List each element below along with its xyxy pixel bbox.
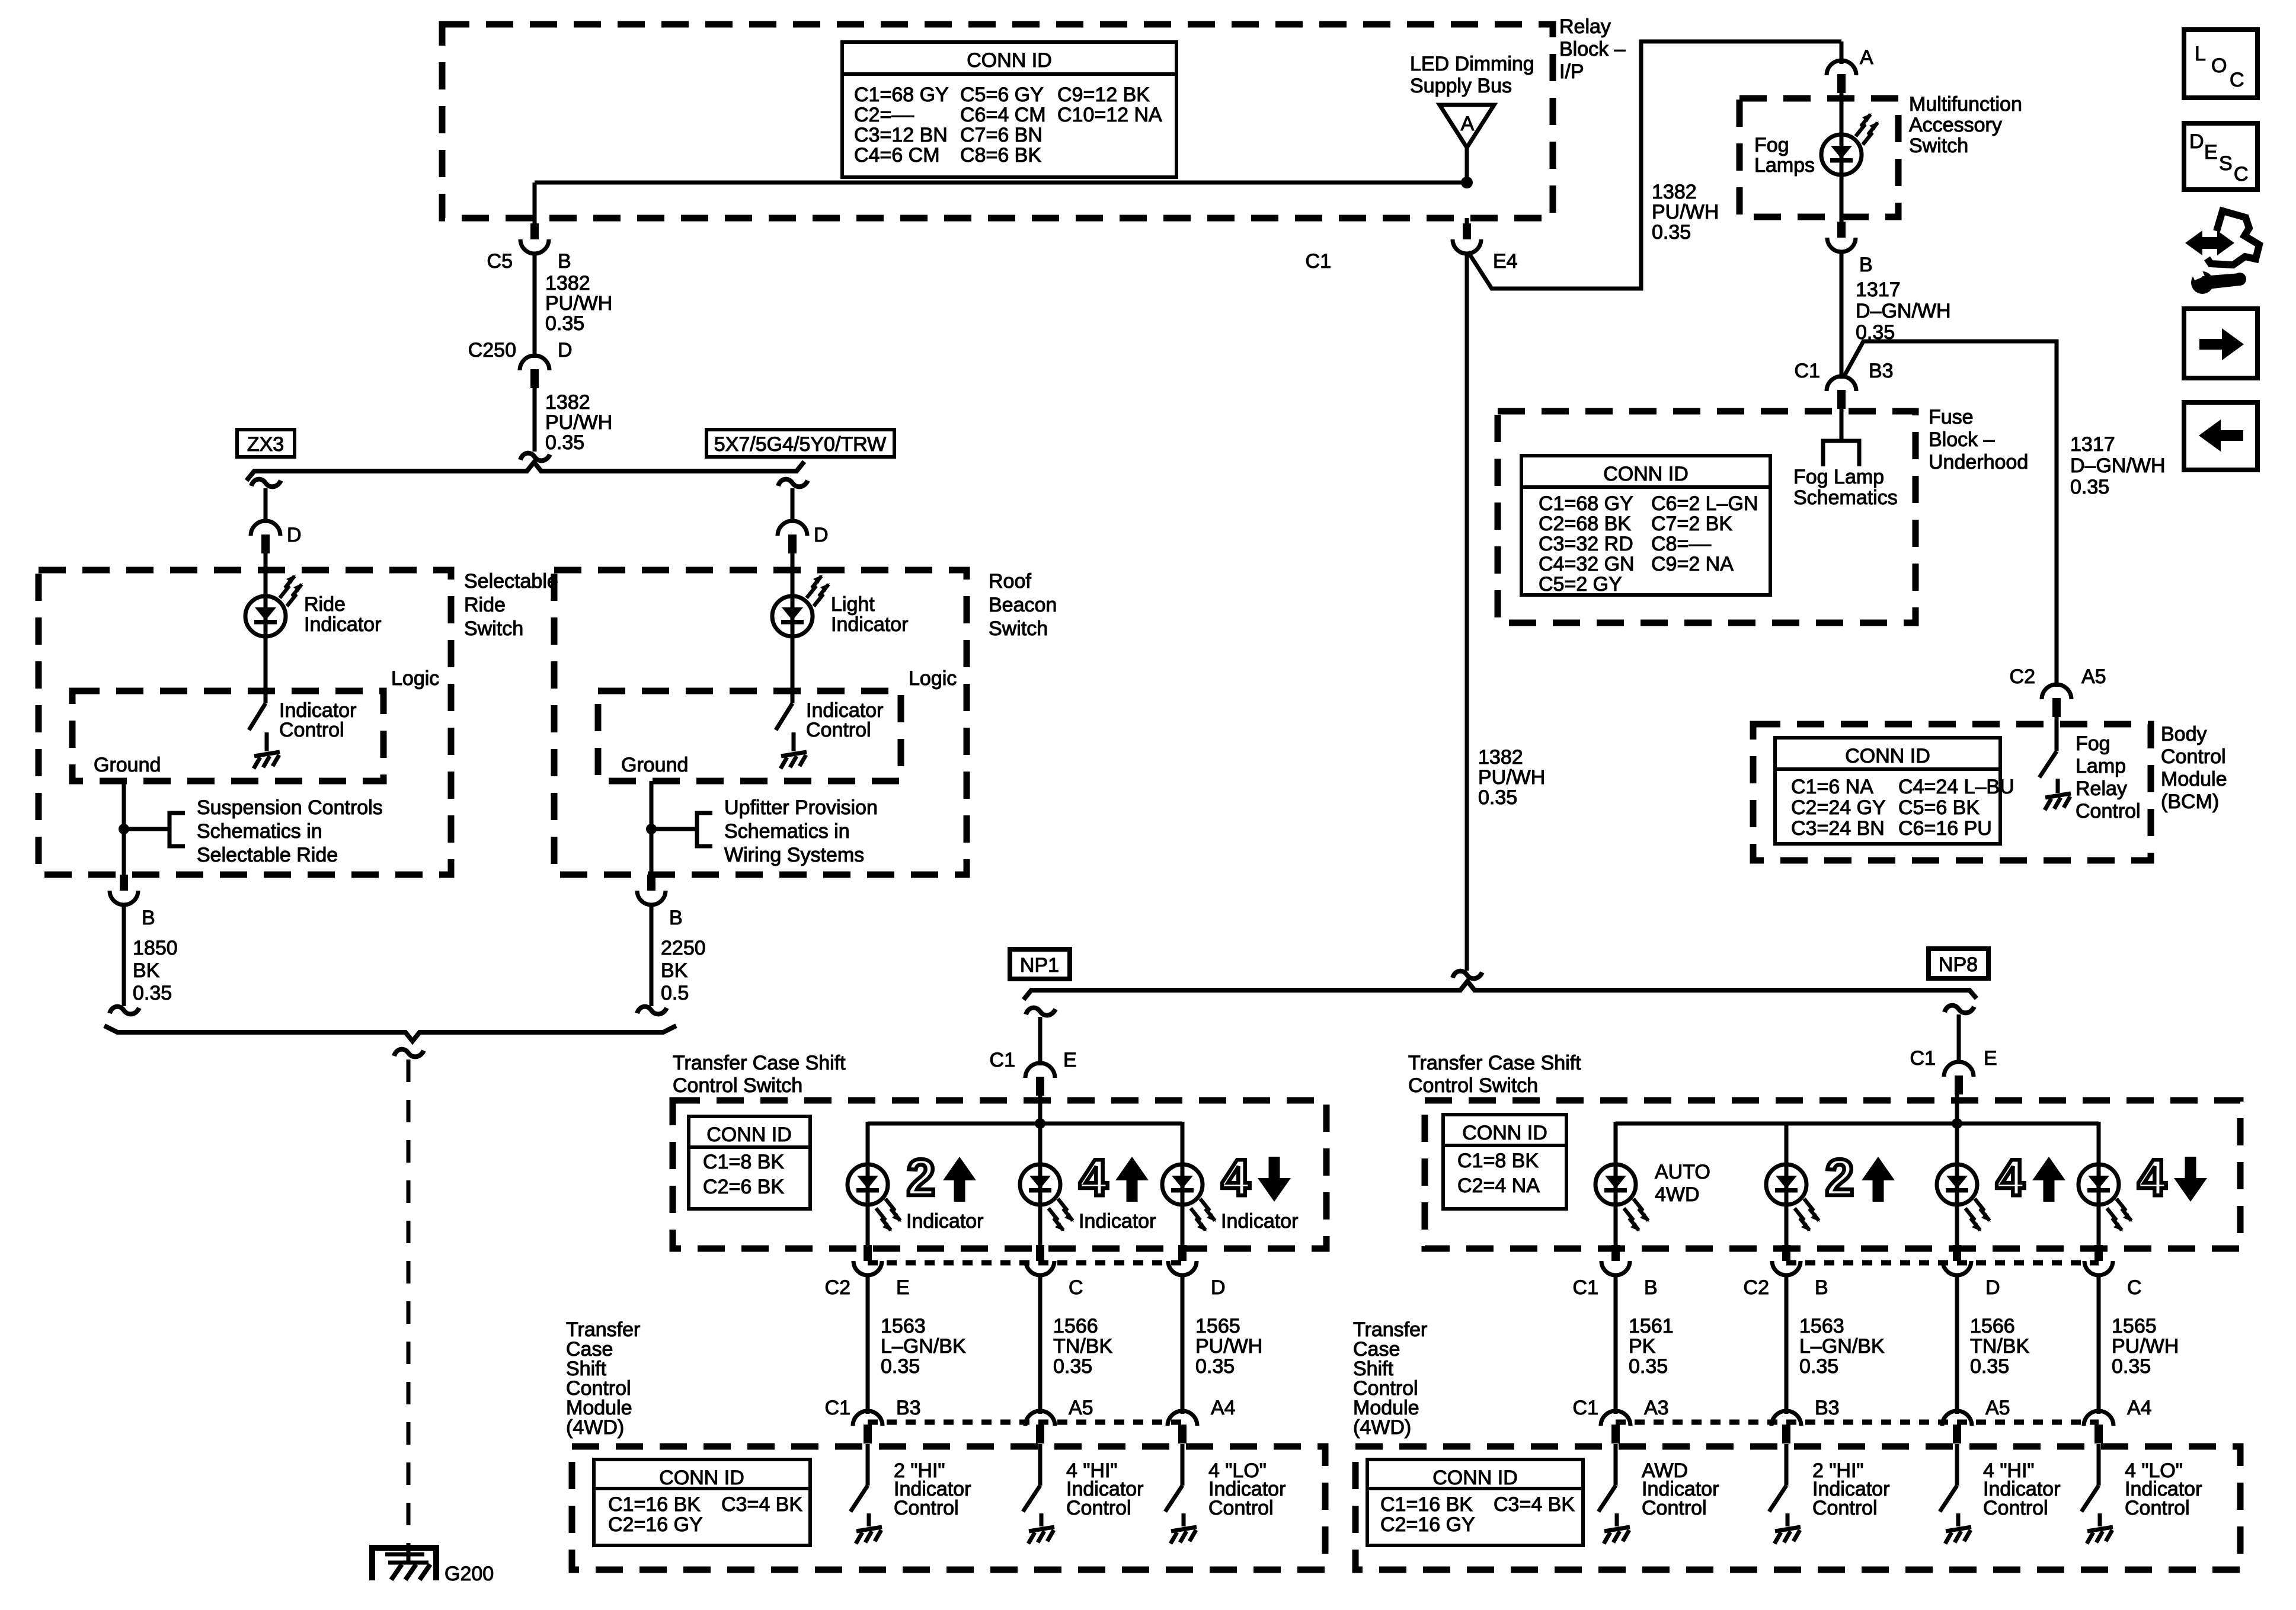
svg-text:0.35: 0.35 bbox=[1478, 786, 1517, 809]
svg-text:Control Switch: Control Switch bbox=[673, 1074, 802, 1097]
svg-text:C3=32 RD: C3=32 RD bbox=[1539, 533, 1633, 555]
svg-text:C2=––: C2=–– bbox=[854, 104, 914, 126]
svg-text:Relay: Relay bbox=[2076, 777, 2127, 800]
wire to module left2 bbox=[1038, 1275, 1043, 1414]
svg-text:PU/WH: PU/WH bbox=[2112, 1335, 2179, 1358]
svg-text:C9=2 NA: C9=2 NA bbox=[1651, 553, 1734, 575]
svg-text:C8=––: C8=–– bbox=[1651, 533, 1711, 555]
svg-text:NP1: NP1 bbox=[1020, 954, 1059, 977]
LED indicator left2 bbox=[1020, 1164, 1060, 1205]
LED column wire right3 bbox=[1955, 1185, 1959, 1245]
svg-text:D: D bbox=[1211, 1276, 1226, 1299]
svg-text:2: 2 bbox=[1825, 1149, 1854, 1206]
svg-text:C: C bbox=[2127, 1276, 2142, 1299]
wire LED to switch (selectable ride switch) bbox=[264, 636, 268, 703]
svg-text:C2=4 NA: C2=4 NA bbox=[1457, 1174, 1540, 1197]
connector top row left3 bbox=[1168, 1245, 1197, 1275]
branch bus curl bbox=[520, 453, 550, 461]
5X7/5G4/5Y0/TRW box bbox=[706, 430, 894, 457]
E4 diagonal to fuse block feed bbox=[1468, 41, 1841, 289]
connector bottom row right2 bbox=[1771, 1411, 1801, 1443]
connector top row right4 bbox=[2084, 1245, 2113, 1275]
wire horizontal inside relay block bbox=[535, 181, 1467, 185]
svg-text:0.5: 0.5 bbox=[661, 982, 689, 1004]
svg-text:C1=68 GY: C1=68 GY bbox=[1539, 492, 1633, 515]
svg-text:0.35: 0.35 bbox=[1799, 1355, 1838, 1378]
svg-text:CONN ID: CONN ID bbox=[1462, 1122, 1547, 1144]
svg-text:C: C bbox=[2234, 163, 2249, 185]
svg-text:PU/WH: PU/WH bbox=[545, 411, 612, 434]
left arrow icon box bbox=[2184, 402, 2257, 470]
svg-text:0.35: 0.35 bbox=[545, 312, 584, 335]
svg-text:C6=4 CM: C6=4 CM bbox=[960, 104, 1046, 126]
svg-text:A3: A3 bbox=[1644, 1397, 1669, 1419]
svg-text:D: D bbox=[1985, 1276, 2000, 1299]
svg-text:S: S bbox=[2219, 152, 2233, 175]
svg-text:C1: C1 bbox=[1573, 1276, 1598, 1299]
connector top row right3 bbox=[1943, 1245, 1971, 1275]
svg-text:C2=16 GY: C2=16 GY bbox=[1380, 1513, 1475, 1536]
svg-text:CONN ID: CONN ID bbox=[1603, 463, 1689, 485]
svg-text:D–GN/WH: D–GN/WH bbox=[1856, 300, 1951, 322]
svg-text:C4=24 L–BU: C4=24 L–BU bbox=[1898, 776, 2014, 798]
svg-text:BK: BK bbox=[133, 959, 160, 982]
svg-text:C1: C1 bbox=[1573, 1397, 1598, 1419]
connector bottom row right4 bbox=[2084, 1411, 2113, 1443]
NP8 drop bbox=[1945, 1006, 1974, 1013]
fuse block dashed box bbox=[1498, 411, 1916, 623]
svg-text:4WD: 4WD bbox=[1655, 1183, 1700, 1206]
svg-text:CONN ID: CONN ID bbox=[1432, 1467, 1518, 1489]
svg-text:L–GN/BK: L–GN/BK bbox=[881, 1335, 966, 1358]
svg-text:B: B bbox=[558, 250, 571, 273]
svg-text:(BCM): (BCM) bbox=[2161, 790, 2219, 813]
svg-text:4: 4 bbox=[1221, 1149, 1250, 1206]
fog lamp relay control switch bbox=[2055, 702, 2059, 751]
svg-text:Indicator: Indicator bbox=[831, 613, 908, 636]
svg-text:C3=12 BN: C3=12 BN bbox=[854, 124, 948, 146]
svg-text:1317: 1317 bbox=[2070, 433, 2115, 456]
svg-text:A: A bbox=[1860, 46, 1873, 69]
connector D (roof beacon switch) bbox=[778, 521, 807, 553]
svg-text:Switch: Switch bbox=[989, 617, 1048, 640]
roof beacon switch dashed box bbox=[554, 570, 967, 875]
svg-text:Underhood: Underhood bbox=[1929, 451, 2028, 473]
svg-text:C2: C2 bbox=[1744, 1276, 1769, 1299]
svg-text:C5=2 GY: C5=2 GY bbox=[1539, 573, 1622, 596]
svg-text:Roof: Roof bbox=[989, 570, 1031, 593]
internal bus left bbox=[868, 1122, 1182, 1126]
B3 diagonal feed to BCM bbox=[1844, 341, 2057, 687]
module switch left2 bbox=[1038, 1444, 1043, 1486]
svg-text:E: E bbox=[1063, 1049, 1077, 1071]
svg-text:Ride: Ride bbox=[464, 594, 506, 616]
svg-text:B: B bbox=[1815, 1276, 1828, 1299]
svg-text:Control: Control bbox=[1642, 1497, 1707, 1519]
svg-text:C5=6 BK: C5=6 BK bbox=[1898, 796, 1980, 819]
wire into fog lamps LED bbox=[1840, 93, 1844, 135]
wire B to ground bus (selectable ride switch) bbox=[122, 904, 126, 1006]
svg-text:Indicator: Indicator bbox=[906, 1210, 983, 1233]
svg-text:1317: 1317 bbox=[1856, 279, 1901, 301]
svg-text:C1: C1 bbox=[825, 1397, 850, 1419]
connector D (selectable ride switch) bbox=[251, 521, 280, 553]
svg-text:C: C bbox=[2230, 69, 2244, 91]
svg-text:4: 4 bbox=[2138, 1149, 2166, 1206]
svg-text:C6=2 L–GN: C6=2 L–GN bbox=[1651, 492, 1758, 515]
svg-text:ZX3: ZX3 bbox=[247, 433, 284, 456]
feed wire into box left bbox=[1038, 1091, 1043, 1185]
svg-text:1850: 1850 bbox=[133, 937, 178, 959]
svg-text:B3: B3 bbox=[1815, 1397, 1840, 1419]
connector B (selectable ride switch) bbox=[110, 875, 138, 905]
fog lamps LED bbox=[1821, 135, 1862, 175]
connector bottom row right3 bbox=[1942, 1411, 1972, 1443]
svg-text:0.35: 0.35 bbox=[1629, 1355, 1668, 1378]
svg-text:C1=16 BK: C1=16 BK bbox=[1380, 1493, 1473, 1516]
svg-text:Schematics in: Schematics in bbox=[197, 820, 322, 843]
svg-text:BK: BK bbox=[661, 959, 688, 982]
CONN ID table module left bbox=[594, 1459, 810, 1545]
svg-text:1565: 1565 bbox=[2112, 1315, 2157, 1337]
svg-text:Control: Control bbox=[2125, 1497, 2190, 1519]
svg-text:Control: Control bbox=[1983, 1497, 2048, 1519]
LED indicator (selectable ride switch) bbox=[245, 596, 286, 636]
selectable ride switch drop curl bbox=[251, 479, 281, 487]
wire to module left3 bbox=[1181, 1275, 1185, 1414]
CONN ID table switch left bbox=[689, 1116, 810, 1209]
service icon zigzag outline bbox=[2207, 211, 2259, 265]
wire to module right4 bbox=[2097, 1275, 2101, 1414]
LED column wire left2 bbox=[1038, 1185, 1043, 1245]
transfer case shift control module dashed box right bbox=[1355, 1446, 2240, 1570]
dashed wire to G200 bbox=[407, 1060, 411, 1561]
svg-text:C1=6 NA: C1=6 NA bbox=[1791, 776, 1873, 798]
LED column wire right4 bbox=[2097, 1122, 2101, 1185]
LED indicator left3 bbox=[1162, 1164, 1203, 1205]
wire to module right3 bbox=[1955, 1275, 1959, 1414]
CONN ID table module right bbox=[1367, 1459, 1583, 1545]
svg-text:0.35: 0.35 bbox=[133, 982, 172, 1004]
svg-text:Upfitter Provision: Upfitter Provision bbox=[724, 796, 878, 819]
svg-text:C: C bbox=[1069, 1276, 1083, 1299]
LED column wire right1 bbox=[1614, 1122, 1618, 1185]
svg-text:E: E bbox=[2204, 141, 2218, 164]
selectable ride switch drop wire bbox=[264, 488, 268, 523]
feed wire into box right bbox=[1955, 1091, 1959, 1185]
roof beacon switch drop wire bbox=[791, 488, 795, 523]
svg-text:C8=6 BK: C8=6 BK bbox=[960, 144, 1041, 167]
connector top row right2 bbox=[1772, 1245, 1801, 1275]
connector C1/E4 bbox=[1465, 218, 1469, 223]
svg-text:C7=2 BK: C7=2 BK bbox=[1651, 513, 1732, 535]
svg-text:Accessory: Accessory bbox=[1909, 114, 2002, 136]
svg-text:C9=12 BK: C9=12 BK bbox=[1057, 84, 1150, 106]
module switch right1 bbox=[1614, 1444, 1618, 1486]
svg-text:C1: C1 bbox=[1910, 1047, 1936, 1070]
connector C2/A5 bbox=[2042, 684, 2071, 717]
svg-text:1566: 1566 bbox=[1970, 1315, 2015, 1337]
dotted connector line bottom left bbox=[868, 1420, 1182, 1425]
svg-text:D–GN/WH: D–GN/WH bbox=[2070, 454, 2166, 477]
LED column wire left3 bbox=[1181, 1122, 1185, 1185]
svg-text:C2=68 BK: C2=68 BK bbox=[1539, 513, 1631, 535]
connector bottom row left3 bbox=[1168, 1411, 1197, 1443]
svg-text:B: B bbox=[142, 907, 155, 929]
ground wire (roof beacon switch) bbox=[650, 781, 654, 877]
internal bus right bbox=[1616, 1122, 2099, 1126]
svg-text:E4: E4 bbox=[1493, 250, 1518, 273]
svg-text:Control: Control bbox=[2161, 745, 2226, 768]
DESC icon box bbox=[2184, 123, 2257, 190]
svg-text:Fog: Fog bbox=[2076, 732, 2110, 755]
svg-text:0.35: 0.35 bbox=[545, 431, 584, 454]
LED column wire left1 bbox=[866, 1122, 870, 1185]
module switch right3 bbox=[1955, 1444, 1959, 1486]
wire to module left1 bbox=[866, 1275, 870, 1414]
svg-text:1382: 1382 bbox=[545, 272, 590, 295]
svg-text:C1: C1 bbox=[990, 1049, 1015, 1071]
connector bottom row left2 bbox=[1025, 1411, 1055, 1443]
svg-text:E: E bbox=[896, 1276, 910, 1299]
svg-text:1382: 1382 bbox=[1478, 746, 1523, 769]
svg-text:C3=4 BK: C3=4 BK bbox=[1494, 1493, 1575, 1516]
svg-text:B3: B3 bbox=[1869, 360, 1894, 382]
bracket symbol (selectable ride switch) bbox=[170, 813, 185, 846]
connector A bbox=[1827, 60, 1856, 93]
svg-text:C2=16 GY: C2=16 GY bbox=[608, 1513, 703, 1536]
connector bottom row left1 bbox=[853, 1411, 882, 1443]
connector C1/E NP1 bbox=[1025, 1063, 1055, 1096]
svg-text:0.35: 0.35 bbox=[1053, 1355, 1092, 1378]
selectable ride switch dashed box bbox=[39, 570, 451, 875]
svg-text:B: B bbox=[1859, 254, 1873, 276]
svg-text:CONN ID: CONN ID bbox=[1845, 745, 1930, 767]
center 1382 wire down bbox=[1465, 253, 1469, 971]
dotted connector line bottom right bbox=[1616, 1420, 2099, 1425]
svg-text:Switch: Switch bbox=[464, 617, 523, 640]
svg-text:Logic: Logic bbox=[391, 667, 439, 690]
switch ground (selectable ride switch) bbox=[254, 752, 280, 769]
svg-text:Body: Body bbox=[2161, 723, 2207, 745]
svg-text:C3=4 BK: C3=4 BK bbox=[721, 1493, 802, 1516]
fog lamp schematics fork bbox=[1823, 441, 1859, 466]
svg-text:Indicator: Indicator bbox=[304, 613, 381, 636]
svg-text:0.35: 0.35 bbox=[1970, 1355, 2009, 1378]
svg-text:TN/BK: TN/BK bbox=[1053, 1335, 1112, 1358]
svg-text:Fog: Fog bbox=[1754, 134, 1789, 156]
LED indicator right3 bbox=[1937, 1164, 1977, 1205]
svg-text:E: E bbox=[1984, 1047, 1997, 1070]
curl at NP bus bbox=[1453, 971, 1482, 979]
ground wire (selectable ride switch) bbox=[122, 781, 126, 877]
svg-text:Logic: Logic bbox=[909, 667, 957, 690]
connector top row left1 bbox=[853, 1245, 882, 1275]
svg-text:Control: Control bbox=[279, 719, 344, 741]
svg-text:Selectable Ride: Selectable Ride bbox=[197, 844, 338, 866]
connector C5/B bbox=[520, 223, 549, 254]
svg-text:Block –: Block – bbox=[1559, 38, 1626, 60]
wire C1/B3 into fork bbox=[1840, 409, 1844, 441]
transfer case shift control module dashed box left bbox=[572, 1446, 1325, 1570]
svg-text:Ground: Ground bbox=[621, 754, 688, 776]
svg-text:0.35: 0.35 bbox=[2112, 1355, 2151, 1378]
logic dashed box (roof beacon switch) bbox=[598, 691, 901, 781]
svg-text:Control: Control bbox=[894, 1497, 959, 1519]
dotted connector line top left bbox=[868, 1260, 1182, 1266]
NP1 drop bbox=[1026, 1008, 1056, 1016]
LED column wire right2 bbox=[1785, 1122, 1789, 1185]
svg-text:Transfer Case Shift: Transfer Case Shift bbox=[1408, 1052, 1581, 1074]
switch ground (roof beacon switch) bbox=[781, 752, 807, 769]
svg-text:A: A bbox=[1461, 113, 1475, 135]
svg-text:1565: 1565 bbox=[1195, 1315, 1240, 1337]
LED dimming supply bus triangle A bbox=[1440, 105, 1494, 148]
indicator control switch (roof beacon switch) bbox=[776, 703, 792, 730]
CONN ID table fuse block bbox=[1521, 456, 1770, 595]
svg-text:PK: PK bbox=[1629, 1335, 1656, 1358]
svg-text:C6=16 PU: C6=16 PU bbox=[1898, 817, 1992, 840]
svg-text:C2: C2 bbox=[2010, 665, 2035, 688]
svg-text:D: D bbox=[2189, 130, 2204, 153]
svg-text:1561: 1561 bbox=[1629, 1315, 1674, 1337]
branch bus with chevron bbox=[247, 462, 804, 481]
svg-text:D: D bbox=[287, 524, 302, 546]
G200 ground symbol bbox=[372, 1548, 436, 1580]
svg-text:Ride: Ride bbox=[304, 593, 346, 616]
svg-text:1563: 1563 bbox=[1799, 1315, 1844, 1337]
module switch right4 bbox=[2097, 1444, 2101, 1486]
ZX3 box bbox=[237, 430, 295, 457]
wire C250 to branch bus bbox=[533, 388, 537, 452]
svg-text:1382: 1382 bbox=[1652, 181, 1697, 203]
svg-text:A5: A5 bbox=[1069, 1397, 1093, 1419]
svg-text:4: 4 bbox=[1996, 1149, 2025, 1206]
module switch left3 bbox=[1181, 1444, 1185, 1486]
svg-text:B: B bbox=[1644, 1276, 1658, 1299]
connector C1/E NP8 bbox=[1944, 1062, 1974, 1094]
LED indicator left1 bbox=[848, 1164, 888, 1205]
svg-text:C7=6 BN: C7=6 BN bbox=[960, 124, 1043, 146]
CONN ID table BCM bbox=[1775, 738, 2000, 844]
wire C5 to C250 bbox=[533, 253, 537, 358]
svg-text:1566: 1566 bbox=[1053, 1315, 1098, 1337]
BCM dashed box bbox=[1753, 724, 2151, 860]
svg-text:B: B bbox=[669, 907, 683, 929]
LED indicator (roof beacon switch) bbox=[772, 596, 813, 636]
svg-text:Control: Control bbox=[1066, 1497, 1131, 1519]
svg-text:C1=68 GY: C1=68 GY bbox=[854, 84, 949, 106]
svg-text:2250: 2250 bbox=[661, 937, 706, 959]
wire B to ground bus (roof beacon switch) bbox=[650, 904, 654, 1006]
svg-text:2: 2 bbox=[907, 1149, 935, 1206]
relay block I/P dashed box bbox=[442, 24, 1553, 218]
transfer case shift control switch dashed box left bbox=[673, 1100, 1326, 1249]
svg-text:Lamps: Lamps bbox=[1754, 154, 1815, 177]
service icon wrench bbox=[2191, 271, 2214, 294]
module switch left1 bbox=[866, 1444, 870, 1486]
ground bus curl to G200 bbox=[394, 1049, 424, 1057]
svg-text:AUTO: AUTO bbox=[1655, 1161, 1710, 1183]
svg-text:Module: Module bbox=[2161, 768, 2227, 790]
svg-text:PU/WH: PU/WH bbox=[1478, 766, 1545, 789]
svg-text:Light: Light bbox=[831, 593, 875, 616]
svg-text:Control: Control bbox=[2076, 800, 2141, 822]
svg-text:C1=16 BK: C1=16 BK bbox=[608, 1493, 701, 1516]
svg-text:G200: G200 bbox=[445, 1563, 494, 1585]
svg-text:0.35: 0.35 bbox=[1195, 1355, 1235, 1378]
svg-text:Beacon: Beacon bbox=[989, 594, 1057, 616]
svg-text:L–GN/BK: L–GN/BK bbox=[1799, 1335, 1885, 1358]
svg-text:0.35: 0.35 bbox=[2070, 476, 2109, 498]
wire LED to switch (roof beacon switch) bbox=[791, 636, 795, 703]
svg-text:A5: A5 bbox=[1985, 1397, 2010, 1419]
svg-text:Transfer Case Shift: Transfer Case Shift bbox=[673, 1052, 846, 1074]
ground bus bbox=[104, 1026, 676, 1041]
LED indicator right4 bbox=[2078, 1164, 2119, 1205]
svg-text:CONN ID: CONN ID bbox=[659, 1467, 744, 1489]
svg-text:Wiring Systems: Wiring Systems bbox=[724, 844, 864, 866]
svg-text:PU/WH: PU/WH bbox=[545, 292, 612, 315]
logic dashed box (selectable ride switch) bbox=[72, 691, 383, 781]
svg-text:Block –: Block – bbox=[1929, 428, 1995, 451]
svg-text:C4=32 GN: C4=32 GN bbox=[1539, 553, 1635, 575]
NP bus line bbox=[1024, 981, 1977, 1000]
wire into LED (roof beacon switch) bbox=[791, 551, 795, 596]
svg-text:Control: Control bbox=[1208, 1497, 1274, 1519]
svg-text:Ground: Ground bbox=[94, 754, 161, 776]
svg-text:(4WD): (4WD) bbox=[1353, 1416, 1411, 1439]
module switch right2 bbox=[1785, 1444, 1789, 1486]
svg-text:0.35: 0.35 bbox=[881, 1355, 920, 1378]
svg-text:Relay: Relay bbox=[1559, 15, 1611, 38]
svg-text:5X7/5G4/5Y0/TRW: 5X7/5G4/5Y0/TRW bbox=[714, 433, 886, 456]
svg-text:Switch: Switch bbox=[1909, 135, 1968, 157]
svg-text:NP8: NP8 bbox=[1939, 953, 1978, 976]
multifunction accessory switch dashed box bbox=[1739, 98, 1898, 217]
connector top row right1 bbox=[1601, 1245, 1630, 1275]
svg-text:D: D bbox=[814, 524, 829, 546]
wire to module right2 bbox=[1785, 1275, 1789, 1414]
transfer case shift control switch dashed box right bbox=[1425, 1100, 2240, 1249]
svg-text:(4WD): (4WD) bbox=[566, 1416, 624, 1439]
connector bottom row right1 bbox=[1601, 1411, 1630, 1443]
connector C250/D bbox=[520, 356, 549, 388]
svg-text:A4: A4 bbox=[1211, 1397, 1236, 1419]
NP1 box bbox=[1010, 949, 1070, 979]
LOC icon box bbox=[2184, 30, 2257, 98]
svg-text:0.35: 0.35 bbox=[1652, 221, 1691, 244]
wire to module right1 bbox=[1614, 1275, 1618, 1414]
svg-text:C2=6 BK: C2=6 BK bbox=[703, 1176, 784, 1198]
roof beacon switch drop curl bbox=[778, 479, 808, 487]
svg-text:A4: A4 bbox=[2127, 1397, 2152, 1419]
wire LED to B bbox=[1840, 175, 1844, 222]
svg-text:1382: 1382 bbox=[545, 391, 590, 414]
svg-text:C10=12 NA: C10=12 NA bbox=[1057, 104, 1162, 126]
connector C1/B3 bbox=[1827, 376, 1856, 409]
svg-text:LED Dimming: LED Dimming bbox=[1410, 53, 1534, 75]
connector top row left2 bbox=[1026, 1245, 1054, 1275]
svg-text:1563: 1563 bbox=[881, 1315, 926, 1337]
svg-text:CONN ID: CONN ID bbox=[967, 49, 1052, 72]
svg-text:Lamp: Lamp bbox=[2076, 755, 2126, 777]
svg-text:Multifunction: Multifunction bbox=[1909, 93, 2022, 116]
svg-text:D: D bbox=[558, 339, 573, 361]
svg-text:C2=24 GY: C2=24 GY bbox=[1791, 796, 1886, 819]
svg-text:Indicator: Indicator bbox=[1221, 1210, 1298, 1233]
svg-text:C4=6 CM: C4=6 CM bbox=[854, 144, 940, 167]
